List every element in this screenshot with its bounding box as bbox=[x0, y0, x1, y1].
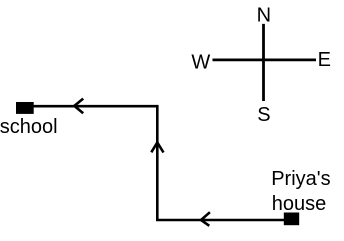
svg-text:school: school bbox=[0, 116, 58, 138]
svg-text:E: E bbox=[318, 49, 331, 71]
svg-text:N: N bbox=[257, 5, 271, 27]
svg-text:S: S bbox=[257, 104, 270, 126]
svg-text:Priya's: Priya's bbox=[271, 168, 330, 190]
svg-text:W: W bbox=[191, 51, 210, 73]
svg-text:house: house bbox=[272, 193, 327, 215]
